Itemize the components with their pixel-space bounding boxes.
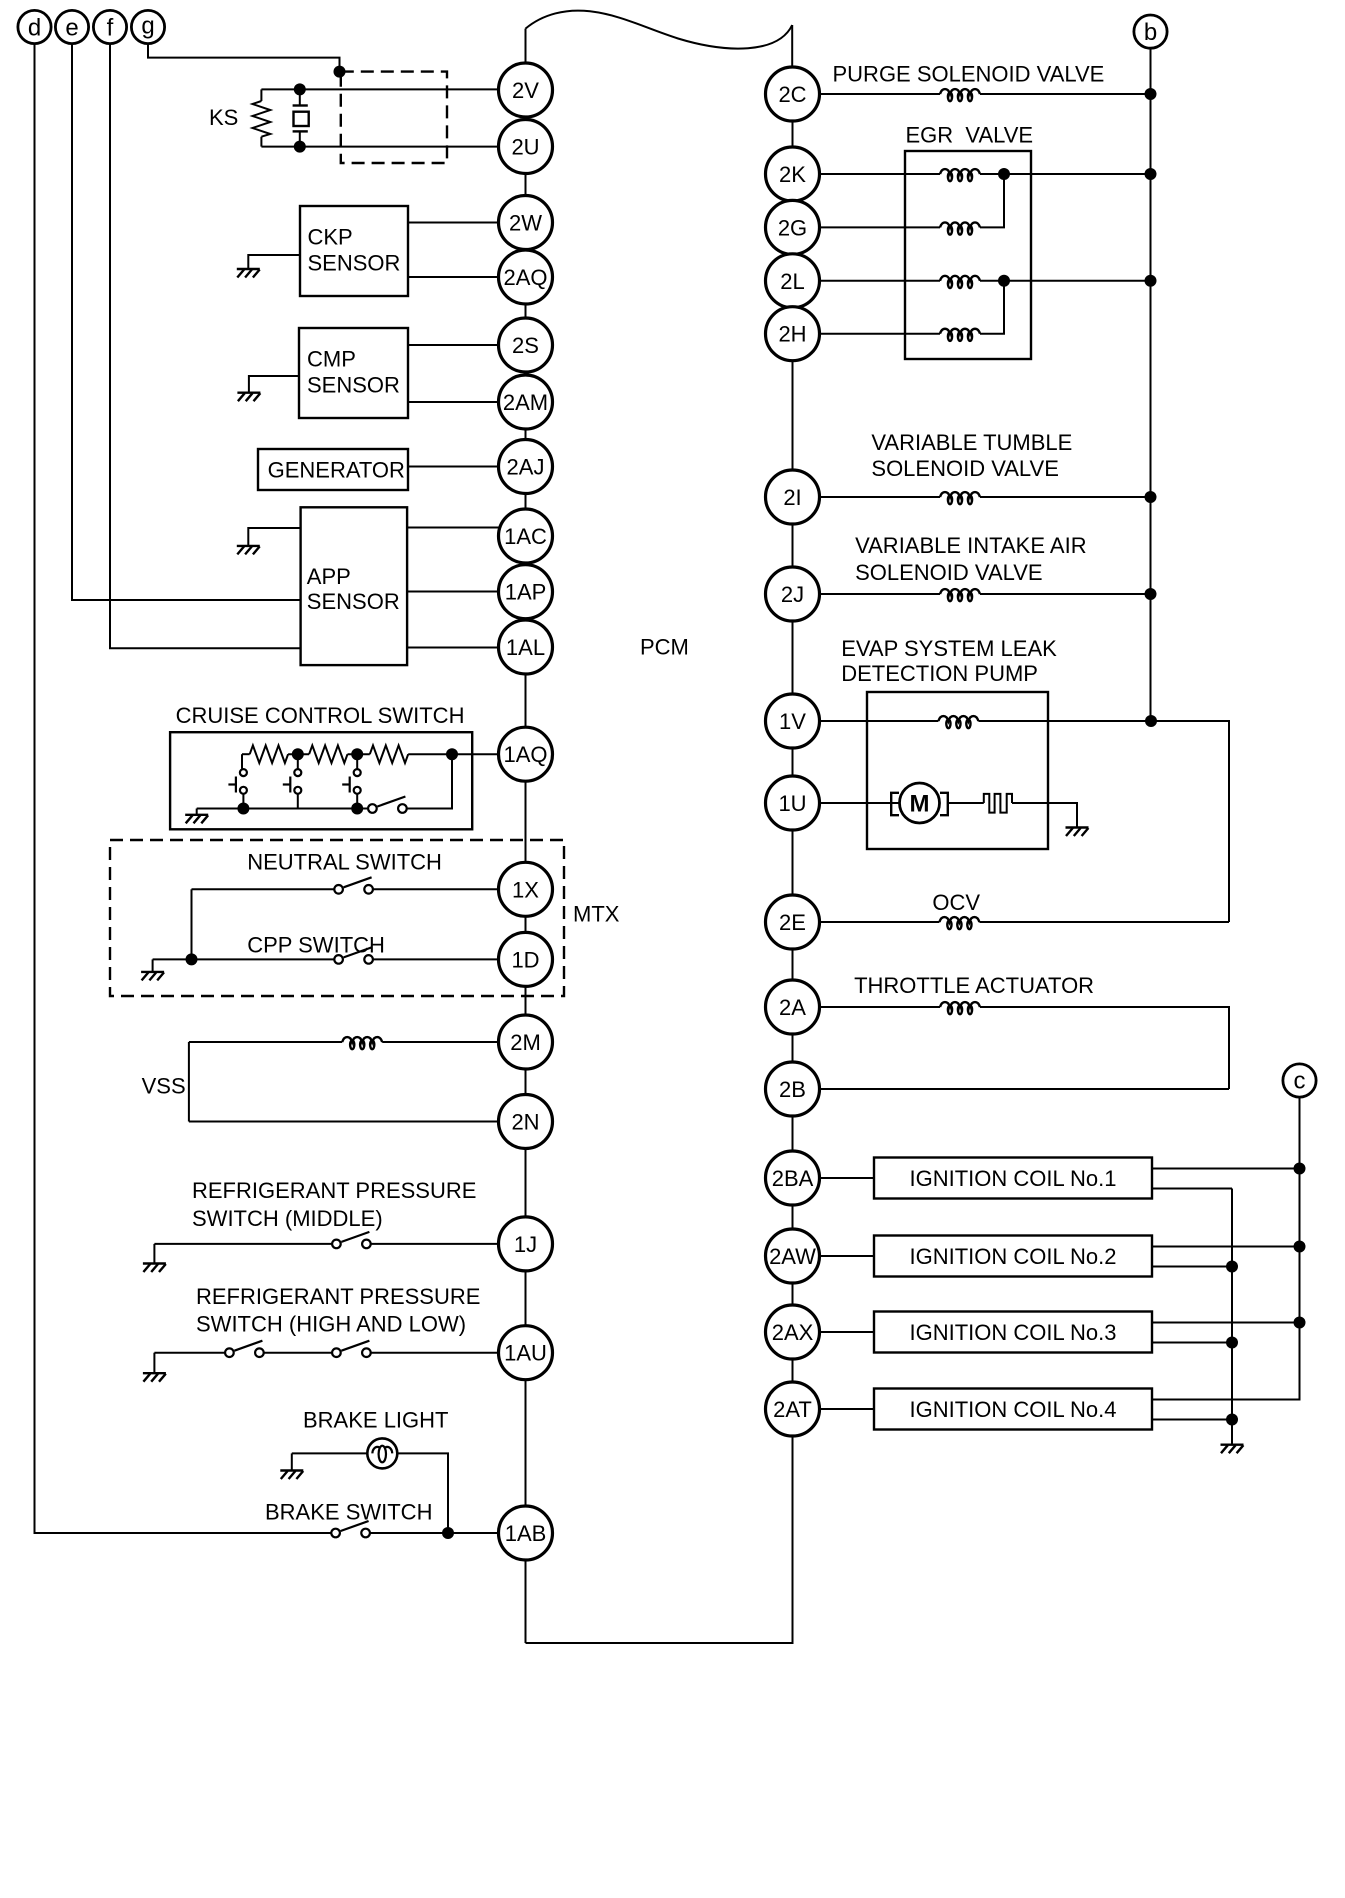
box ignition coil No.2	[874, 1236, 1152, 1277]
connector g	[131, 10, 164, 43]
svg-text:KS: KS	[209, 105, 238, 130]
svg-text:2AM: 2AM	[503, 390, 548, 415]
cruise wire R2-R3	[348, 753, 370, 755]
wire CKP to 2W	[408, 222, 499, 224]
wire 2J out	[980, 593, 1151, 595]
wire refrig hl left	[154, 1352, 225, 1354]
terminal 2W PCM	[499, 196, 553, 250]
terminal 1V PCM	[766, 694, 820, 748]
wire 2H	[820, 333, 941, 335]
svg-text:IGNITION COIL No.2: IGNITION COIL No.2	[909, 1244, 1116, 1269]
svg-text:EGR VALVE: EGR VALVE	[906, 122, 1034, 147]
terminal 1U PCM	[766, 776, 820, 830]
coil EGR 3	[940, 276, 980, 288]
terminal 2AM PCM	[499, 375, 553, 429]
coil EGR 4	[940, 329, 980, 341]
svg-text:APP: APP	[307, 564, 351, 589]
junction KS bottom	[294, 141, 306, 153]
svg-text:SENSOR: SENSOR	[307, 373, 400, 398]
wire coil No.1 secondary to c-line	[1152, 1168, 1300, 1170]
wire 2E	[820, 921, 940, 923]
wire 2A out	[980, 1007, 1229, 1089]
terminal 2I PCM	[766, 470, 820, 524]
wire EGR4 up	[980, 281, 1004, 334]
svg-text:2H: 2H	[778, 322, 806, 347]
svg-text:2K: 2K	[779, 162, 806, 187]
terminal 2K PCM	[766, 147, 820, 201]
terminal 1AC PCM	[499, 509, 553, 563]
wire refrig hl mid	[263, 1352, 332, 1354]
box EGR valve	[905, 151, 1031, 359]
junction cruise A	[292, 748, 304, 760]
wire CPP left	[153, 958, 335, 960]
coil EGR 1	[940, 169, 980, 181]
svg-text:1AL: 1AL	[506, 635, 545, 660]
bottom link wire	[526, 1437, 793, 1644]
svg-text:1V: 1V	[779, 709, 806, 734]
KS piezo bottom plate	[293, 130, 308, 132]
svg-text:VSS: VSS	[142, 1074, 186, 1099]
svg-text:IGNITION COIL No.4: IGNITION COIL No.4	[909, 1397, 1116, 1422]
junction MTX	[186, 953, 198, 965]
wire GENERATOR to 2AJ	[408, 466, 499, 468]
box CKP sensor	[300, 206, 408, 296]
c-line vertical	[1152, 1097, 1300, 1400]
terminal 2N PCM	[499, 1095, 553, 1149]
junction KS top	[294, 83, 306, 95]
svg-text:2J: 2J	[781, 582, 804, 607]
cruise bottom bus	[197, 808, 369, 810]
coil variable intake air solenoid	[940, 589, 980, 601]
wire d to brake switch	[35, 44, 332, 1533]
terminal 2L PCM	[766, 254, 820, 308]
wire CKP ground	[248, 255, 300, 269]
wire g to KS shield	[148, 44, 340, 72]
svg-text:2I: 2I	[783, 485, 801, 510]
terminal 2V PCM	[499, 63, 553, 117]
junction coil No.1 c-line	[1294, 1163, 1306, 1175]
ground EVAP pump	[1066, 828, 1089, 837]
svg-text:CPP SWITCH: CPP SWITCH	[247, 933, 385, 958]
terminal 1D PCM	[499, 932, 553, 986]
wire e to APP sensor	[72, 44, 301, 600]
svg-text:b: b	[1144, 19, 1157, 46]
KS piezo top plate	[293, 104, 308, 106]
terminal 1X PCM	[499, 862, 553, 916]
junction cruise bus 1	[237, 803, 249, 815]
junction coil No.2 ground bus	[1226, 1261, 1238, 1273]
terminal 1AQ PCM	[499, 727, 553, 781]
wire CMP ground	[249, 376, 299, 393]
resistor cruise R3	[370, 745, 408, 763]
cruise ground stem	[196, 809, 198, 815]
box ignition coil No.1	[874, 1158, 1152, 1199]
svg-text:SWITCH (MIDDLE): SWITCH (MIDDLE)	[192, 1206, 383, 1231]
box cruise control switch	[170, 732, 472, 829]
cable squiggle	[526, 11, 793, 49]
connector b	[1134, 15, 1167, 48]
brake light bulb	[367, 1438, 397, 1468]
wire 2A	[820, 1006, 941, 1008]
wire APP to 1AP	[407, 591, 500, 593]
wire 2B	[820, 1088, 1230, 1090]
junction EGR3	[998, 275, 1010, 287]
terminal 2AT PCM	[766, 1382, 820, 1436]
svg-text:BRAKE SWITCH: BRAKE SWITCH	[265, 1500, 432, 1525]
terminal 2B PCM	[766, 1062, 820, 1116]
wire 2BA to coil No.1	[820, 1177, 875, 1179]
VSS top wire	[189, 1041, 342, 1043]
svg-text:2W: 2W	[509, 211, 542, 236]
junction brake	[442, 1527, 454, 1539]
junction purge b-line	[1145, 88, 1157, 100]
cruise bus right	[406, 754, 452, 808]
svg-text:VARIABLE TUMBLE: VARIABLE TUMBLE	[871, 430, 1072, 455]
svg-text:2L: 2L	[780, 269, 804, 294]
junction cruise B	[351, 748, 363, 760]
junction EGR1	[998, 168, 1010, 180]
pump element EVAP	[984, 794, 1012, 813]
box APP sensor	[301, 507, 408, 665]
wire CPP to 1D	[373, 958, 499, 960]
switch CPP	[334, 947, 373, 963]
wire f to APP sensor	[110, 44, 301, 649]
shield dashed box KS	[341, 72, 447, 163]
wire EGR2 up	[980, 174, 1004, 227]
switch neutral	[334, 877, 373, 893]
terminal 2E PCM	[766, 895, 820, 949]
wire neutral switch left	[192, 888, 335, 890]
wire 2G	[820, 226, 941, 228]
wire 1V	[820, 720, 939, 722]
wire coil No.2 secondary to c-line	[1152, 1246, 1300, 1248]
wire APP ground	[248, 528, 300, 546]
MTX ground stem	[152, 959, 154, 972]
wire 2AT to coil No.4	[820, 1408, 875, 1410]
terminal 2AW PCM	[766, 1229, 820, 1283]
wire refrig hl to 1AU	[370, 1352, 498, 1354]
terminal 2S PCM	[499, 318, 553, 372]
ground CKP	[237, 269, 260, 278]
terminal 2A PCM	[766, 980, 820, 1034]
connector e	[55, 10, 88, 43]
terminal 2C PCM	[766, 67, 820, 121]
svg-text:2B: 2B	[779, 1077, 806, 1102]
svg-text:c: c	[1294, 1068, 1306, 1095]
wire 2I	[820, 496, 941, 498]
terminal 2M PCM	[499, 1015, 553, 1069]
wire motor to pump	[948, 802, 984, 804]
switch refrigerant low	[332, 1341, 371, 1357]
terminal 1J PCM	[499, 1217, 553, 1271]
svg-text:2U: 2U	[511, 135, 539, 160]
svg-text:THROTTLE ACTUATOR: THROTTLE ACTUATOR	[854, 973, 1094, 998]
svg-text:2G: 2G	[778, 215, 807, 240]
coil EGR 2	[940, 222, 980, 234]
svg-text:2AJ: 2AJ	[507, 455, 545, 480]
refrig middle ground stem	[153, 1244, 155, 1264]
wire 2C purge	[820, 93, 941, 95]
coil throttle actuator	[940, 1002, 980, 1014]
terminal 2U PCM	[499, 120, 553, 174]
svg-text:IGNITION COIL No.1: IGNITION COIL No.1	[909, 1166, 1116, 1191]
junction 2L b-line	[1145, 275, 1157, 287]
svg-text:PURGE SOLENOID VALVE: PURGE SOLENOID VALVE	[833, 61, 1105, 86]
wire purge to b-line	[980, 93, 1151, 95]
junction 2K b-line	[1145, 168, 1157, 180]
connector c	[1283, 1064, 1316, 1097]
ground APP	[237, 546, 260, 555]
terminal 2J PCM	[766, 567, 820, 621]
svg-text:2AQ: 2AQ	[503, 265, 547, 290]
KS piezo stub bottom	[299, 131, 301, 146]
svg-text:2A: 2A	[779, 995, 806, 1020]
terminal 2AJ PCM	[499, 440, 553, 494]
svg-text:REFRIGERANT PRESSURE: REFRIGERANT PRESSURE	[196, 1284, 480, 1309]
wire pump to ground	[1012, 803, 1077, 828]
junction coil No.4 ground bus	[1226, 1414, 1238, 1426]
svg-text:MTX: MTX	[573, 902, 620, 927]
junction 2J b-line	[1145, 588, 1157, 600]
ground refrigerant middle	[143, 1264, 166, 1273]
svg-text:1AC: 1AC	[504, 524, 547, 549]
junction coil No.3 c-line	[1294, 1317, 1306, 1329]
svg-text:BRAKE LIGHT: BRAKE LIGHT	[303, 1408, 448, 1433]
svg-text:2E: 2E	[779, 910, 806, 935]
wire coil No.3 primary to ground bus	[1152, 1342, 1232, 1344]
svg-text:GENERATOR: GENERATOR	[268, 458, 405, 483]
wire 2J	[820, 593, 941, 595]
box CMP sensor	[299, 328, 408, 418]
svg-text:DETECTION PUMP: DETECTION PUMP	[841, 661, 1038, 686]
box ignition coil No.4	[874, 1389, 1152, 1430]
connector d	[18, 10, 51, 43]
coil variable tumble solenoid	[940, 492, 980, 504]
svg-text:1D: 1D	[511, 947, 539, 972]
KS top wire to 2V	[261, 88, 498, 90]
svg-text:1AQ: 1AQ	[503, 742, 547, 767]
svg-text:2S: 2S	[512, 333, 539, 358]
svg-text:f: f	[107, 15, 114, 42]
svg-text:REFRIGERANT PRESSURE: REFRIGERANT PRESSURE	[192, 1178, 476, 1203]
svg-text:SOLENOID VALVE: SOLENOID VALVE	[855, 560, 1042, 585]
switch refrigerant middle	[332, 1232, 371, 1248]
wire brake switch to 1AB	[370, 1532, 499, 1534]
resistor cruise R2	[309, 745, 347, 763]
junction coil No.2 c-line	[1294, 1241, 1306, 1253]
wire refrig middle left	[154, 1243, 332, 1245]
wire coil No.4 secondary to c-line	[1152, 1399, 1300, 1401]
svg-text:NEUTRAL SWITCH: NEUTRAL SWITCH	[247, 849, 442, 874]
cruise wire R3 to 1AQ	[408, 753, 498, 755]
KS bottom wire to 2U	[261, 146, 498, 148]
svg-text:SENSOR: SENSOR	[308, 251, 401, 276]
KS resistor stub top	[260, 89, 262, 101]
coil purge solenoid valve	[940, 89, 980, 101]
right column wire top	[791, 25, 793, 67]
junction 2I b-line	[1145, 491, 1157, 503]
ground ignition coils	[1221, 1445, 1244, 1454]
switch cruise main	[368, 797, 407, 813]
ignition ground bus	[1231, 1189, 1233, 1445]
svg-text:OCV: OCV	[932, 890, 980, 915]
push button switch 2 cruise	[283, 754, 302, 808]
terminal 1AB PCM	[499, 1506, 553, 1560]
svg-text:1U: 1U	[778, 791, 806, 816]
svg-text:M: M	[910, 791, 930, 818]
push button switch 1 cruise	[228, 754, 247, 808]
svg-text:CKP: CKP	[308, 225, 353, 250]
ground cruise	[185, 815, 208, 824]
svg-text:2M: 2M	[510, 1030, 541, 1055]
coil VSS	[342, 1037, 382, 1049]
coil OCV	[939, 917, 979, 929]
junction cruise C	[446, 748, 458, 760]
coil EVAP solenoid	[938, 716, 978, 728]
svg-text:1AU: 1AU	[504, 1341, 547, 1366]
terminal 1AU PCM	[499, 1326, 553, 1380]
b-line vertical	[1150, 48, 1152, 721]
wire 2L	[820, 280, 941, 282]
svg-text:2V: 2V	[512, 78, 539, 103]
wire 2AX to coil No.3	[820, 1331, 875, 1333]
terminal 2BA PCM	[766, 1151, 820, 1205]
KS piezo stub top	[299, 89, 301, 105]
brake light wire	[292, 1453, 448, 1533]
wire CKP to 2AQ	[408, 276, 499, 278]
terminal 2AQ PCM	[499, 250, 553, 304]
junction cruise bus 2	[351, 803, 363, 815]
motor M EVAP pump	[891, 783, 948, 823]
VSS top wire right	[382, 1041, 498, 1043]
wire coil No.2 primary to ground bus	[1152, 1266, 1232, 1268]
svg-text:1AP: 1AP	[505, 580, 547, 605]
wire OCV right	[979, 921, 1229, 923]
ground MTX	[141, 972, 164, 981]
svg-text:PCM: PCM	[640, 635, 689, 660]
svg-text:EVAP SYSTEM LEAK: EVAP SYSTEM LEAK	[841, 636, 1057, 661]
svg-text:CMP: CMP	[307, 347, 356, 372]
terminal 2H PCM	[766, 307, 820, 361]
box EVAP pump	[867, 692, 1048, 849]
wire 1V out	[978, 721, 1229, 922]
wire CMP to 2S	[408, 344, 499, 346]
wire EGR1 out	[980, 173, 1151, 175]
svg-text:SOLENOID VALVE: SOLENOID VALVE	[871, 456, 1058, 481]
junction 1V b-line	[1145, 715, 1157, 727]
svg-text:CRUISE CONTROL SWITCH: CRUISE CONTROL SWITCH	[176, 703, 465, 728]
right column verticals	[792, 67, 794, 1437]
svg-text:2AX: 2AX	[772, 1320, 814, 1345]
svg-text:2N: 2N	[511, 1110, 539, 1135]
VSS bottom wire	[189, 1121, 499, 1123]
svg-text:2AW: 2AW	[769, 1244, 816, 1269]
wire 1U to motor	[820, 802, 900, 804]
svg-text:1J: 1J	[514, 1232, 537, 1257]
svg-text:2C: 2C	[778, 82, 806, 107]
wire coil No.4 primary to ground bus	[1152, 1419, 1232, 1421]
wire 2I out	[980, 496, 1151, 498]
brake light ground wire	[291, 1453, 293, 1470]
svg-text:SWITCH (HIGH AND LOW): SWITCH (HIGH AND LOW)	[196, 1312, 466, 1337]
svg-text:2AT: 2AT	[773, 1397, 812, 1422]
terminal 2AX PCM	[766, 1305, 820, 1359]
wire CMP to 2AM	[408, 401, 499, 403]
svg-text:2BA: 2BA	[772, 1166, 814, 1191]
wire coil No.1 primary to ground bus	[1152, 1188, 1232, 1190]
switch brake	[331, 1521, 370, 1537]
terminal 2G PCM	[766, 200, 820, 254]
wire refrig middle to 1J	[370, 1243, 498, 1245]
terminal 1AP PCM	[499, 565, 553, 619]
resistor cruise R1	[250, 745, 288, 763]
left column verticals	[525, 63, 527, 1643]
wire 2K	[820, 173, 941, 175]
wire 2AW to coil No.2	[820, 1255, 875, 1257]
svg-text:1X: 1X	[512, 877, 539, 902]
terminal 1AL PCM	[499, 620, 553, 674]
wire coil No.3 secondary to c-line	[1152, 1322, 1300, 1324]
cruise resistor line left	[242, 753, 250, 755]
ground brake light	[280, 1471, 303, 1480]
cruise wire R1-R2	[288, 753, 309, 755]
wire APP to 1AC	[407, 527, 502, 529]
junction KS shield	[334, 66, 346, 78]
resistor KS	[253, 101, 271, 137]
svg-text:IGNITION COIL No.3: IGNITION COIL No.3	[909, 1320, 1116, 1345]
connector f	[93, 10, 126, 43]
wire APP to 1AL	[407, 647, 500, 649]
switch refrigerant high	[225, 1341, 264, 1357]
ground CMP	[237, 393, 260, 402]
MTX dashed box	[110, 840, 564, 996]
VSS left vertical	[188, 1042, 190, 1122]
svg-text:e: e	[65, 15, 78, 42]
svg-text:1AB: 1AB	[505, 1521, 547, 1546]
KS resistor stub bottom	[260, 137, 262, 147]
svg-text:g: g	[141, 13, 154, 40]
box ignition coil No.3	[874, 1312, 1152, 1353]
wire EGR3 out	[980, 280, 1151, 282]
ground refrigerant high low	[143, 1373, 166, 1382]
wire neutral switch to 1X	[373, 888, 499, 890]
refrig hl ground stem	[153, 1353, 155, 1374]
wire MTX link	[191, 889, 193, 959]
push button switch 3 cruise	[342, 754, 361, 808]
junction coil No.3 ground bus	[1226, 1337, 1238, 1349]
svg-text:VARIABLE INTAKE AIR: VARIABLE INTAKE AIR	[855, 533, 1086, 558]
PCM left column wire top	[525, 29, 527, 63]
svg-text:SENSOR: SENSOR	[307, 589, 400, 614]
piezo element KS	[294, 112, 309, 126]
box GENERATOR	[258, 449, 408, 490]
svg-text:d: d	[28, 15, 41, 42]
